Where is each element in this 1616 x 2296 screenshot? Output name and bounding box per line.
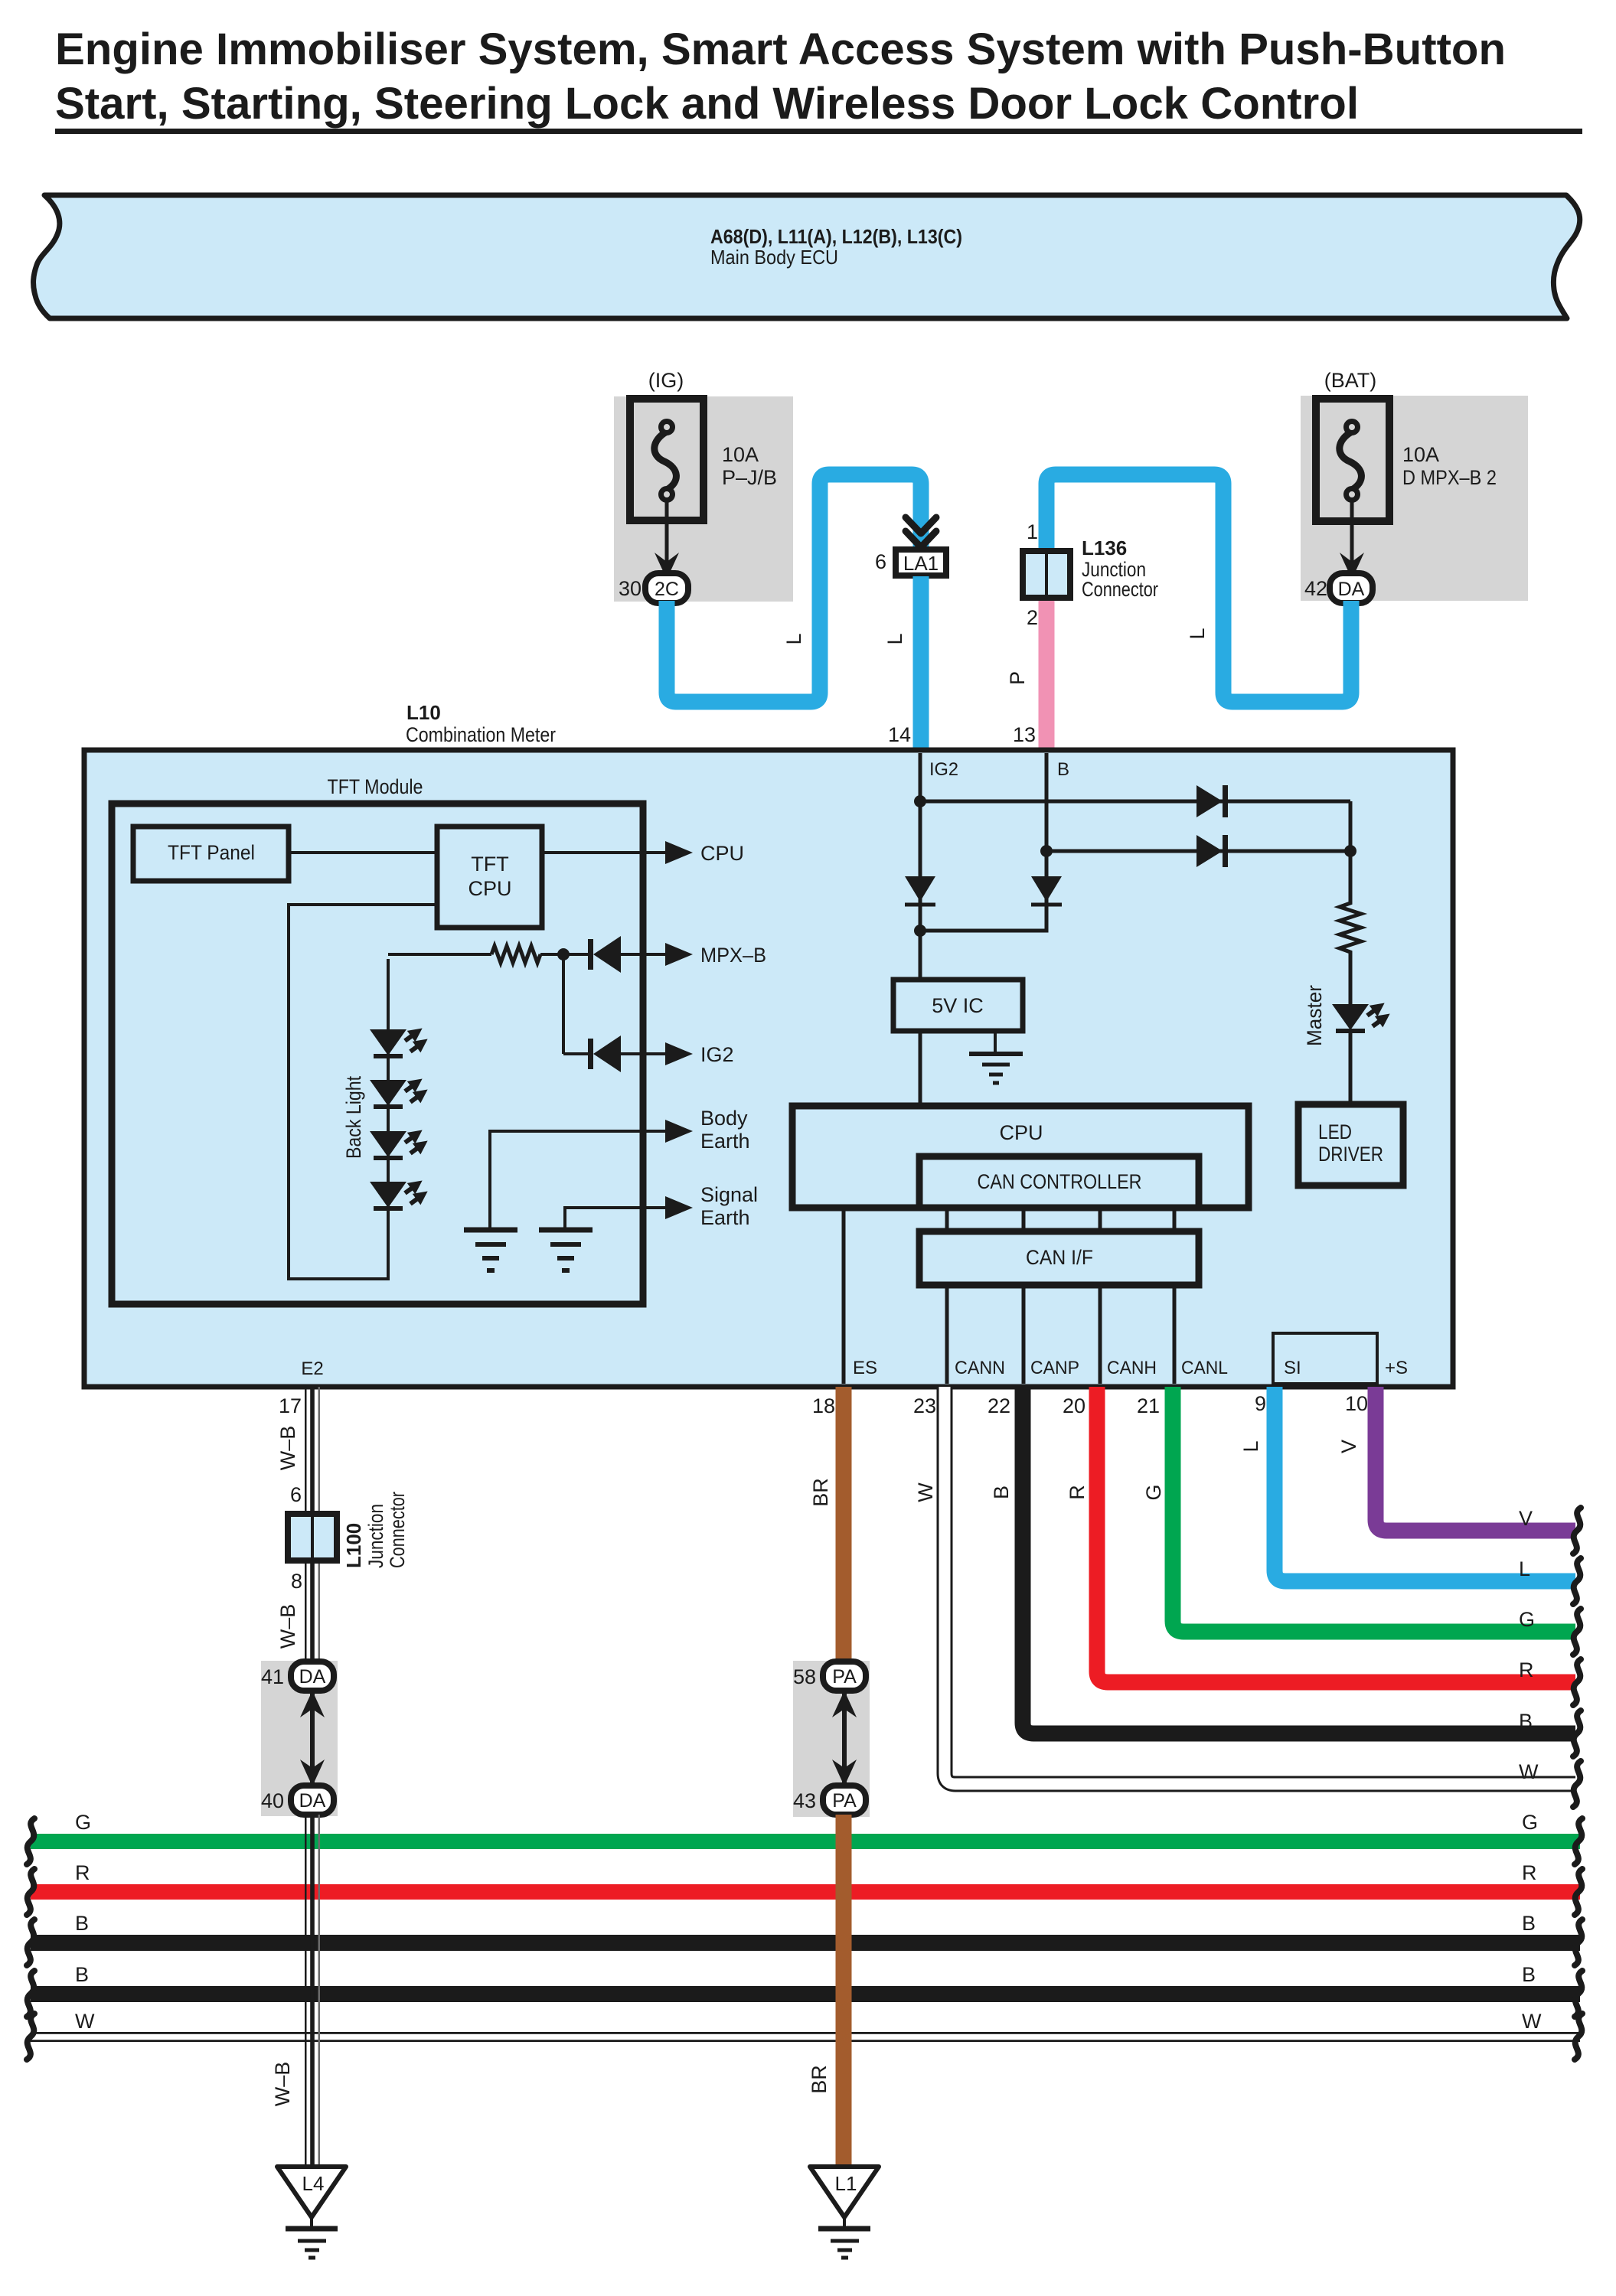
ground (body earth) — [464, 1230, 517, 1270]
TITLE — [55, 24, 1582, 134]
break (W bus right) — [1575, 2014, 1582, 2060]
break (R) — [1573, 1659, 1581, 1705]
break (R bus left) — [27, 1869, 34, 1915]
break (G bus left) — [27, 1818, 34, 1864]
svg-text:L: L — [782, 633, 805, 644]
ground L4 — [277, 2167, 346, 2217]
svg-text:DRIVER: DRIVER — [1318, 1143, 1383, 1166]
svg-text:DA: DA — [299, 1790, 326, 1812]
output arrow MPX-B — [665, 943, 693, 966]
svg-text:Engine Immobiliser System, Sma: Engine Immobiliser System, Smart Access … — [55, 24, 1506, 74]
svg-text:G: G — [1522, 1811, 1538, 1834]
svg-text:23: 23 — [913, 1394, 936, 1417]
svg-text:B: B — [75, 1912, 89, 1935]
svg-text:TFT Panel: TFT Panel — [168, 841, 255, 864]
svg-text:L: L — [1239, 1440, 1262, 1452]
ground (5V IC) — [994, 1031, 997, 1052]
svg-text:2: 2 — [1027, 606, 1038, 629]
splice arrows (DA) — [310, 1693, 315, 1783]
svg-text:B: B — [1522, 1963, 1536, 1986]
break (W) — [1573, 1761, 1581, 1807]
svg-text:CANN: CANN — [955, 1358, 1005, 1378]
connector oval 2C — [645, 573, 688, 603]
TFT Module box — [112, 804, 643, 1304]
break (B bus left) — [27, 1919, 34, 1965]
svg-text:Earth: Earth — [700, 1206, 750, 1229]
svg-text:Main Body ECU: Main Body ECU — [710, 246, 838, 269]
svg-text:MPX–B: MPX–B — [700, 944, 766, 967]
bus wire R — [31, 1884, 1580, 1900]
svg-text:17: 17 — [279, 1394, 302, 1417]
svg-text:B: B — [1522, 1912, 1536, 1935]
break (W bus left) — [27, 2014, 34, 2060]
svg-text:(BAT): (BAT) — [1324, 369, 1377, 392]
CAN controller to CAN I/F stubs — [945, 1208, 949, 1231]
wire R (CANH) to right break — [1097, 1387, 1575, 1682]
wire pin13 internal vertical — [1045, 753, 1049, 905]
wire L from fuse IG 2C to LA1 (blue) — [667, 475, 921, 702]
TOPWIRES — [667, 475, 1351, 753]
fuse IG output arrow — [665, 500, 669, 566]
LED DRIVER box — [1298, 1104, 1403, 1186]
svg-text:L1: L1 — [835, 2172, 857, 2195]
ground (signal earth) — [539, 1230, 593, 1270]
wire TFT CPU to CPU arrow — [542, 851, 667, 854]
body earth wire — [490, 1131, 667, 1228]
wire CANN pin — [945, 1285, 949, 1384]
node above 5V IC — [914, 925, 926, 937]
wire V (+S) to right break (violet) — [1376, 1387, 1575, 1531]
connector oval DA(42) — [1330, 573, 1373, 603]
svg-text:D MPX–B 2: D MPX–B 2 — [1402, 466, 1497, 489]
break (G bus right) — [1575, 1818, 1582, 1864]
fuse BAT output arrow — [1350, 500, 1354, 566]
svg-text:R: R — [1522, 1861, 1537, 1884]
svg-text:Junction: Junction — [364, 1504, 387, 1568]
wire W-B pin17 to L100 (white/black) — [305, 1387, 320, 1511]
back light LED 4 — [370, 1175, 432, 1209]
svg-text:6: 6 — [875, 550, 886, 573]
wire D5 to 5V line — [920, 905, 1046, 931]
CPU box — [792, 1106, 1249, 1208]
svg-text:10A: 10A — [722, 443, 759, 466]
svg-text:Combination Meter: Combination Meter — [406, 723, 556, 746]
svg-text:B: B — [990, 1486, 1013, 1499]
svg-text:PA: PA — [832, 1790, 857, 1812]
signal earth wire — [565, 1208, 667, 1228]
svg-text:Connector: Connector — [386, 1492, 409, 1568]
back light LED 1 — [370, 1022, 432, 1057]
svg-text:L: L — [1519, 1557, 1530, 1580]
svg-text:Connector: Connector — [1082, 578, 1158, 601]
fuse BAT gray panel — [1301, 396, 1528, 601]
wire BR PA43 to ground L1 (brown) — [836, 1815, 852, 2167]
resistor (backlight) — [491, 946, 540, 963]
wire B to second diode row — [1046, 850, 1350, 853]
wire CANP pin — [1022, 1285, 1026, 1384]
TFT Panel box — [133, 827, 289, 881]
back light LED 3 — [370, 1124, 432, 1159]
svg-text:Body: Body — [700, 1107, 748, 1130]
svg-text:G: G — [75, 1811, 91, 1834]
break (B2 bus right) — [1575, 1971, 1582, 2017]
svg-text:L100: L100 — [342, 1523, 365, 1568]
junction connector L100 — [288, 1514, 337, 1561]
connector oval PA(58) — [823, 1662, 866, 1691]
bus wire B — [31, 1935, 1580, 1951]
svg-text:L: L — [883, 633, 906, 644]
svg-text:IG2: IG2 — [929, 759, 958, 780]
title underline — [55, 129, 1582, 134]
connector oval DA(41) — [291, 1662, 334, 1691]
svg-text:30: 30 — [619, 577, 642, 600]
wire IG2 to top diode row — [920, 800, 1350, 804]
wire W-B L100 to DA41 — [305, 1564, 320, 1662]
wire L from junction L136 pin 1 to fuse BAT DA(42) (blue) — [1046, 475, 1351, 702]
svg-text:CANP: CANP — [1030, 1358, 1079, 1378]
svg-text:10: 10 — [1345, 1392, 1368, 1415]
svg-text:G: G — [1142, 1484, 1165, 1500]
wire P from L136 pin 2 to meter pin 13 (pink) — [1039, 601, 1055, 753]
svg-text:DA: DA — [299, 1666, 326, 1688]
svg-text:CPU: CPU — [700, 842, 744, 865]
wire TFT Panel to TFT CPU — [289, 851, 437, 854]
svg-text:14: 14 — [888, 723, 911, 746]
wire ES from CPU to pin 18 — [842, 1208, 846, 1384]
output arrow CPU — [665, 841, 693, 864]
back light LED 2 — [370, 1073, 432, 1107]
svg-text:B: B — [1519, 1710, 1533, 1733]
svg-text:E2: E2 — [301, 1358, 323, 1379]
svg-text:V: V — [1337, 1440, 1360, 1453]
svg-text:10A: 10A — [1402, 443, 1439, 466]
svg-text:ES: ES — [853, 1358, 877, 1378]
wire loop TFT CPU to back light chain — [289, 905, 437, 1279]
diode D2 (to IG2) — [588, 1039, 593, 1069]
ground L1 — [810, 2167, 879, 2217]
fuse IG element symbol — [655, 432, 677, 490]
svg-text:G: G — [1519, 1608, 1535, 1631]
fuse BAT 10A D MPX-B 2 body — [1316, 399, 1389, 521]
diode D4 (IG2 down) — [905, 876, 935, 902]
output arrow IG2 — [665, 1042, 693, 1065]
junction connector L136 — [1023, 551, 1070, 598]
break (B bus right) — [1575, 1919, 1582, 1965]
svg-text:Master: Master — [1303, 985, 1326, 1046]
svg-text:LED: LED — [1318, 1120, 1352, 1143]
node on B line — [1040, 845, 1053, 857]
svg-text:TFT: TFT — [471, 853, 508, 876]
svg-text:+S: +S — [1385, 1358, 1408, 1378]
svg-text:42: 42 — [1304, 577, 1327, 600]
wire W (CANN) to right break — [945, 1387, 1575, 1784]
diode D5 (B down) — [1031, 876, 1062, 902]
FUSES — [614, 369, 1528, 603]
svg-text:W: W — [75, 2010, 95, 2033]
wire L from LA1 to meter pin 14 (blue) — [913, 576, 929, 753]
Main Body ECU banner box — [34, 195, 1580, 318]
node at LED branch — [1344, 845, 1356, 857]
CAN CONTROLLER box — [919, 1156, 1199, 1208]
wire CANL pin — [1173, 1285, 1177, 1384]
connector LA1 box — [896, 550, 946, 576]
BUSES — [31, 1811, 1580, 2042]
svg-text:R: R — [1519, 1658, 1534, 1681]
svg-text:IG2: IG2 — [700, 1043, 734, 1066]
svg-text:Back Light: Back Light — [342, 1076, 365, 1159]
svg-text:43: 43 — [793, 1789, 816, 1812]
svg-text:6: 6 — [290, 1483, 302, 1506]
wire LED chain to resistor — [388, 953, 491, 956]
fuse BAT element symbol — [1340, 432, 1362, 490]
svg-text:SI: SI — [1284, 1358, 1301, 1378]
svg-text:R: R — [1066, 1485, 1089, 1500]
TFT CPU box — [437, 827, 542, 928]
svg-text:9: 9 — [1255, 1392, 1266, 1415]
SI pin box — [1273, 1333, 1377, 1384]
wire W-B DA40 to ground L4 — [305, 1815, 320, 2167]
node on IG2 line — [914, 795, 926, 807]
bus wire W — [31, 2032, 1580, 2042]
svg-text:20: 20 — [1063, 1394, 1085, 1417]
5V IC box — [893, 980, 1023, 1031]
svg-text:W: W — [914, 1482, 937, 1502]
svg-text:DA: DA — [1338, 579, 1365, 600]
wire CANH pin — [1099, 1285, 1102, 1384]
splice gray panel (DA) — [261, 1661, 338, 1816]
svg-text:L4: L4 — [302, 2172, 325, 2195]
svg-text:CPU: CPU — [999, 1121, 1043, 1144]
svg-text:P–J/B: P–J/B — [722, 466, 777, 489]
output arrow Signal Earth — [665, 1196, 693, 1219]
svg-text:W–B: W–B — [271, 2062, 294, 2107]
svg-text:PA: PA — [832, 1666, 857, 1688]
svg-text:22: 22 — [988, 1394, 1010, 1417]
svg-text:Earth: Earth — [700, 1130, 750, 1153]
break (G) — [1573, 1609, 1581, 1655]
svg-text:2C: 2C — [655, 579, 679, 600]
svg-text:(IG): (IG) — [648, 369, 684, 392]
junction node — [557, 948, 570, 960]
wire L (SI) to right break (blue) — [1275, 1387, 1575, 1581]
svg-text:R: R — [75, 1861, 90, 1884]
fuse IG gray panel — [614, 396, 793, 602]
svg-text:P: P — [1006, 671, 1029, 685]
svg-text:W–B: W–B — [276, 1604, 299, 1649]
svg-text:TFT Module: TFT Module — [328, 775, 423, 798]
diode D1 (to MPX-B) — [588, 939, 593, 970]
svg-text:L10: L10 — [406, 701, 441, 724]
svg-text:LA1: LA1 — [903, 552, 939, 575]
splice gray panel (PA) — [793, 1661, 870, 1817]
METER — [84, 701, 1453, 1387]
svg-text:CAN CONTROLLER: CAN CONTROLLER — [978, 1170, 1142, 1193]
svg-text:18: 18 — [812, 1394, 835, 1417]
svg-text:41: 41 — [261, 1665, 284, 1688]
svg-text:Start, Starting, Steering Lock: Start, Starting, Steering Lock and Wirel… — [55, 79, 1359, 129]
svg-text:A68(D), L11(A), L12(B), L13(C): A68(D), L11(A), L12(B), L13(C) — [710, 225, 962, 248]
resistor (master LED) — [1340, 853, 1361, 1004]
wire 5V IC to CPU — [919, 1031, 922, 1108]
wire D1 node to D2 — [562, 954, 565, 1054]
LED Master — [1332, 1004, 1369, 1030]
bus wire B (second) — [31, 1986, 1580, 2002]
svg-text:13: 13 — [1013, 723, 1036, 746]
diode D6 (B row, right) — [1196, 835, 1223, 867]
wire B (CANP) to right break — [1023, 1387, 1575, 1733]
break (B) — [1573, 1711, 1581, 1756]
break (L) — [1573, 1558, 1581, 1604]
svg-text:8: 8 — [291, 1570, 302, 1593]
svg-text:BR: BR — [808, 2065, 831, 2094]
svg-text:B: B — [75, 1963, 89, 1986]
svg-text:40: 40 — [261, 1789, 284, 1812]
connector oval DA(40) — [291, 1786, 334, 1815]
svg-text:5V IC: 5V IC — [932, 994, 984, 1017]
CAN I/F box — [919, 1231, 1199, 1285]
connector oval PA(43) — [823, 1786, 866, 1815]
svg-text:BR: BR — [809, 1478, 832, 1507]
break (B2 bus left) — [27, 1971, 34, 2017]
output arrow Body Earth — [665, 1120, 693, 1143]
svg-text:B: B — [1057, 759, 1069, 780]
chevron joint above LA1 — [906, 517, 936, 533]
svg-text:CAN I/F: CAN I/F — [1026, 1246, 1093, 1269]
wire corner to LED row — [1349, 801, 1353, 853]
break (V) — [1573, 1508, 1581, 1554]
wire G (CANL) to right break — [1173, 1387, 1575, 1632]
svg-text:L: L — [1186, 628, 1209, 639]
svg-text:1: 1 — [1027, 520, 1038, 543]
svg-text:21: 21 — [1137, 1394, 1160, 1417]
wire pin14 internal vertical — [919, 753, 922, 980]
svg-text:V: V — [1519, 1507, 1533, 1530]
svg-text:W–B: W–B — [276, 1426, 299, 1471]
svg-text:W: W — [1522, 2010, 1542, 2033]
svg-text:58: 58 — [793, 1665, 816, 1688]
wire LED to LED driver — [1349, 1030, 1353, 1107]
svg-text:CANH: CANH — [1107, 1358, 1157, 1378]
svg-text:Signal: Signal — [700, 1183, 758, 1206]
fuse IG 10A P-J/B body — [630, 399, 704, 520]
bus wire G — [31, 1834, 1580, 1849]
BANNER — [34, 195, 1580, 318]
svg-text:CPU: CPU — [468, 877, 511, 900]
svg-text:L136: L136 — [1082, 536, 1127, 559]
svg-text:CANL: CANL — [1181, 1358, 1228, 1378]
break (R bus right) — [1575, 1869, 1582, 1915]
svg-text:W: W — [1519, 1760, 1539, 1783]
BUS BREAKS — [27, 1818, 1582, 2060]
splice arrows (PA) — [842, 1693, 847, 1783]
wire BR pin18 to PA58 (brown) — [836, 1387, 852, 1662]
diode D3 (IG2 row, right) — [1196, 785, 1223, 817]
combination meter box L10 — [84, 750, 1453, 1387]
